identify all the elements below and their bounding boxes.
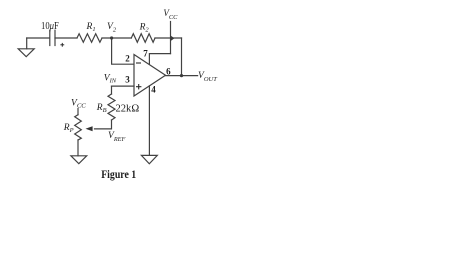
svg-text:Figure 1: Figure 1 — [101, 169, 136, 181]
node V2 junction dot — [110, 36, 113, 39]
wire (R1 to R2 through node V2) — [102, 37, 131, 39]
node output junction dot — [180, 74, 183, 77]
svg-text:10μF: 10μF — [41, 21, 59, 32]
wire (VIN to pin 3) — [112, 85, 135, 87]
svg-text:2: 2 — [125, 53, 130, 63]
op-amp plus sign — [136, 84, 141, 89]
capacitor plus sign — [60, 43, 64, 47]
wire (pin 3 down to RB) — [111, 86, 113, 94]
svg-text:22kΩ: 22kΩ — [116, 104, 140, 115]
ground (input) — [18, 38, 34, 57]
resistor R1 — [77, 34, 102, 43]
wire (pin 7 to VCC rail) — [149, 54, 170, 65]
wire (V2 down to pin 2) — [112, 38, 134, 64]
op-amp U1 — [134, 55, 166, 97]
wire (RB bottom to VREF corner) — [95, 120, 112, 129]
ground (RP) — [71, 156, 87, 164]
arrow (RP wiper) — [86, 126, 93, 131]
capacitor C1 — [50, 30, 55, 45]
svg-text:3: 3 — [125, 75, 130, 85]
svg-text:7: 7 — [143, 49, 148, 59]
wire (input node to capacitor) — [27, 37, 50, 39]
arrow (VCC into feedback node) — [170, 35, 174, 41]
ground (pin 4) — [141, 155, 157, 163]
wire (RP bottom to ground) — [77, 140, 79, 156]
resistor R2 — [131, 34, 155, 43]
resistor RB — [108, 94, 115, 120]
svg-text:6: 6 — [166, 66, 171, 76]
op-amp minus sign — [136, 62, 141, 64]
power VCC rail (top) — [170, 22, 172, 54]
wire (output to VOUT) — [166, 75, 198, 77]
wire (capacitor to R1) — [55, 37, 77, 39]
potentiometer RP — [75, 115, 82, 140]
svg-text:4: 4 — [151, 84, 156, 94]
wire (feedback drop to output) — [181, 38, 183, 76]
wire (R2 to feedback corner) — [155, 37, 182, 39]
power VCC lead (left) — [77, 109, 79, 115]
wire (pin 4 down to ground) — [148, 86, 150, 155]
